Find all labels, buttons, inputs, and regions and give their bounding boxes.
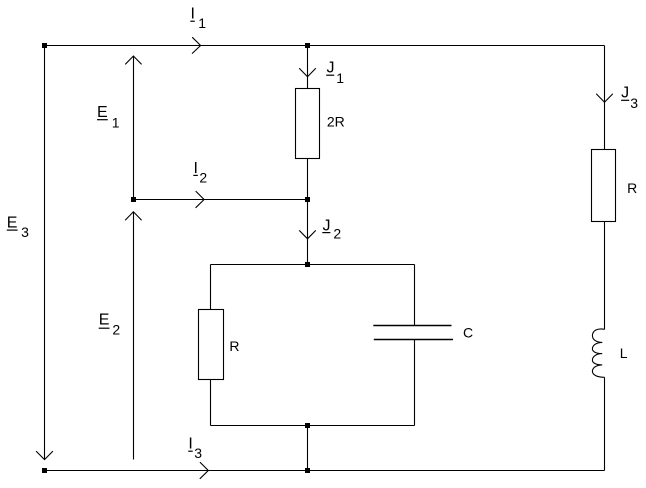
label I3	[188, 436, 202, 462]
wire resistor 2R to node D	[307, 159, 309, 200]
svg-text:C: C	[463, 325, 473, 341]
current arrow J2	[299, 230, 316, 238]
resistor 2R	[296, 89, 320, 159]
svg-text:L: L	[620, 345, 628, 361]
wire node D down to parallel block	[307, 200, 309, 265]
svg-text:E: E	[99, 312, 110, 329]
svg-text:1: 1	[198, 15, 206, 31]
svg-text:1: 1	[336, 70, 344, 86]
label J1	[326, 59, 344, 86]
svg-text:3: 3	[21, 224, 29, 240]
capacitor C plates	[373, 326, 453, 340]
svg-text:E: E	[97, 104, 108, 121]
wire parallel block top	[211, 264, 415, 266]
wire right rail lower	[604, 377, 606, 470]
current arrow J1	[299, 68, 316, 76]
svg-text:2R: 2R	[327, 114, 345, 130]
svg-text:2: 2	[199, 170, 207, 186]
wire block-bottom to bottom rail	[307, 426, 309, 471]
wire block left upper	[210, 265, 212, 310]
inductor L coil	[592, 329, 604, 377]
svg-text:I: I	[194, 160, 198, 177]
current arrow J3	[596, 94, 613, 102]
svg-text:I: I	[191, 6, 195, 23]
svg-text:I: I	[188, 436, 192, 453]
node mid	[305, 197, 310, 202]
wire block right lower	[414, 340, 416, 426]
node block-bottom	[305, 423, 310, 428]
svg-text:1: 1	[112, 114, 120, 130]
resistor R (parallel block)	[199, 310, 224, 380]
resistor R (right branch)	[592, 150, 616, 222]
label I2	[193, 160, 207, 186]
current arrow I1 on top rail	[192, 37, 201, 53]
wire bottom rail	[45, 470, 605, 472]
label J3	[621, 84, 638, 111]
wire / EMF arrow E3 left rail	[36, 48, 53, 460]
wire top rail	[45, 45, 605, 47]
svg-text:R: R	[627, 180, 637, 196]
svg-text:3: 3	[630, 95, 638, 111]
node top-mid	[305, 43, 310, 48]
label E3	[7, 214, 29, 240]
wire parallel block bottom	[211, 425, 415, 427]
wire right rail mid	[604, 222, 606, 330]
label E2	[99, 312, 121, 338]
wire block left lower	[210, 380, 212, 426]
svg-text:J: J	[621, 84, 629, 101]
label J2	[322, 218, 341, 242]
node mid-left	[131, 197, 136, 202]
svg-text:2: 2	[333, 225, 341, 241]
svg-text:2: 2	[112, 322, 120, 338]
node bottom-mid	[305, 468, 310, 473]
svg-text:J: J	[327, 59, 335, 76]
svg-text:E: E	[7, 214, 18, 231]
wire right rail upper	[604, 46, 606, 150]
node block-top	[305, 262, 310, 267]
svg-text:3: 3	[194, 445, 202, 461]
EMF arrow E1	[125, 56, 141, 197]
current arrow I3	[200, 462, 209, 479]
wire block right upper	[414, 265, 416, 326]
node bottom-left	[42, 468, 47, 473]
label E1	[97, 104, 120, 130]
wire node B down to resistor 2R	[307, 46, 309, 89]
node top-left	[42, 43, 47, 48]
label I1	[190, 6, 206, 32]
wire I2 horizontal	[134, 199, 308, 201]
svg-text:R: R	[229, 338, 239, 354]
current arrow I2	[196, 191, 205, 208]
EMF arrow E2	[125, 212, 141, 460]
